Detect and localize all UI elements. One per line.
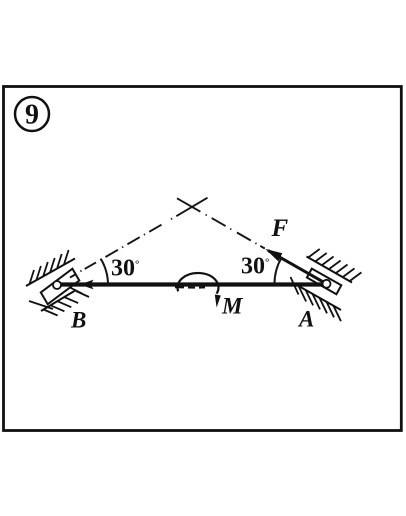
svg-text:B: B [70,308,86,333]
right support upper wall [307,257,353,283]
right angle arc at A [275,258,282,284]
border frame [4,87,402,431]
pin B [53,281,61,289]
force F arrowhead [265,249,282,262]
figure number circle 9 [15,97,49,131]
beam lower-edge dashes under moment arc [175,286,205,288]
left slider box [41,269,80,305]
moment arrowhead [215,295,221,308]
force F line [268,251,327,284]
left support lower hatching [29,288,89,316]
svg-text:9: 9 [25,100,39,131]
right slider box [307,269,341,295]
left angle arc at B [101,259,108,285]
beam left arrowhead near B [80,280,94,290]
right support lower hatching [291,277,341,321]
svg-text:A: A [297,307,314,332]
svg-text:F: F [271,215,289,242]
right guide axis (dash-dot line through A) [177,198,265,248]
pin A [323,280,331,288]
svg-text:30°: 30° [241,254,269,280]
moment arc M [177,273,218,294]
svg-text:30°: 30° [111,256,139,282]
left guide axis (dash-dot line through B) [70,198,208,278]
left support upper wall [26,259,75,287]
left support lower wall [41,290,76,311]
beam BA [58,282,326,286]
right support lower wall [296,285,341,311]
svg-text:M: M [221,294,244,319]
left support upper hatching [30,250,69,284]
right support upper hatching [308,249,361,281]
